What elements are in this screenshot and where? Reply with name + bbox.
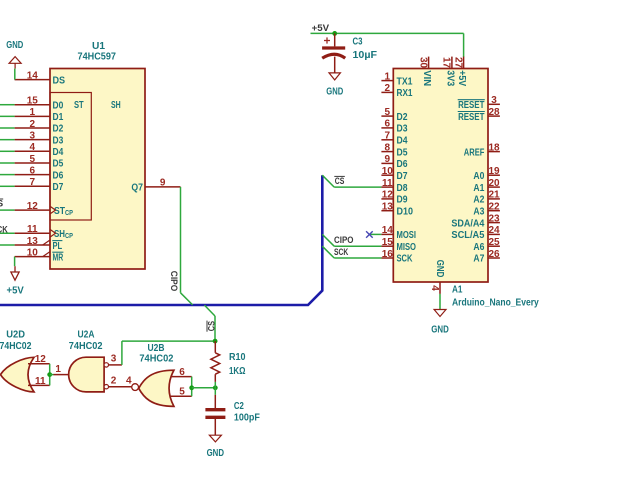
U2B pin 5 xyxy=(171,395,192,397)
svg-text:DS: DS xyxy=(53,75,66,86)
svg-text:+5V: +5V xyxy=(7,286,25,297)
wire node to C2 xyxy=(214,388,216,395)
wire rail down to Arduino +5V pin xyxy=(463,33,465,57)
svg-text:28: 28 xyxy=(488,107,500,118)
svg-text:14: 14 xyxy=(27,70,39,81)
svg-text:12: 12 xyxy=(382,190,394,201)
U1 pin 12 clock symbol xyxy=(50,206,56,214)
A1 pin 26 A7 xyxy=(488,257,500,259)
svg-text:74HC02: 74HC02 xyxy=(0,341,32,352)
U2A pin 2 to U2B pin 4 xyxy=(109,386,132,388)
svg-text:9: 9 xyxy=(385,154,391,165)
bus wire (blue) xyxy=(0,175,322,305)
svg-text:A2: A2 xyxy=(473,195,484,206)
svg-text:D3: D3 xyxy=(53,135,64,146)
svg-text:74HC02: 74HC02 xyxy=(69,341,103,352)
A1 pin 25 A6 xyxy=(488,245,500,247)
gate U2D 74HC02 (mirrored NOR, cut off at left) xyxy=(1,357,35,392)
svg-text:ST: ST xyxy=(74,100,84,111)
svg-text:23: 23 xyxy=(488,213,500,224)
svg-text:AREF: AREF xyxy=(464,147,485,158)
svg-text:14: 14 xyxy=(382,225,394,236)
svg-text:C3: C3 xyxy=(353,37,363,48)
svg-text:15: 15 xyxy=(27,96,39,107)
svg-text:10: 10 xyxy=(382,166,394,177)
svg-text:1: 1 xyxy=(385,71,391,82)
power symbol GND (top-left, flipped) xyxy=(9,57,21,64)
wire CIPO from Q7 down to bus xyxy=(180,187,182,293)
svg-text:CK: CK xyxy=(0,225,8,236)
A1 pin 23 SDA/A4 xyxy=(488,222,500,224)
svg-text:+5V: +5V xyxy=(312,23,330,34)
wire U2A output to U2D inputs, pin 1 xyxy=(50,374,54,376)
A1 pin 6 D3 xyxy=(381,127,393,129)
net label CS (vertical, with overline) xyxy=(207,321,218,332)
U1 pin 13 PL (active low) xyxy=(15,244,50,246)
svg-text:D0: D0 xyxy=(53,100,64,111)
U2A input bubble pin 3 xyxy=(104,363,108,367)
svg-text:SHCP: SHCP xyxy=(54,229,73,240)
svg-text:D8: D8 xyxy=(397,183,408,194)
svg-text:CIPO: CIPO xyxy=(334,235,354,246)
resistor R10 xyxy=(214,341,216,353)
U2D pin 11 xyxy=(28,384,50,386)
U2B pin 6 xyxy=(171,376,192,378)
power symbol +5V (pointing down) xyxy=(14,266,16,272)
U1 pin 15 D0 xyxy=(15,104,50,106)
U1 pin 2 D2 xyxy=(15,127,50,129)
U1 pin 5 D5 xyxy=(15,162,50,164)
svg-text:2: 2 xyxy=(385,83,391,94)
svg-text:4: 4 xyxy=(429,285,440,291)
U1 pin 13 input-low wedge xyxy=(43,240,50,245)
U1 pin 1 D1 xyxy=(15,115,50,117)
svg-text:CIPO: CIPO xyxy=(168,271,179,292)
A1 pin 19 A0 xyxy=(488,174,500,176)
wire CS from bus to Arduino D8 xyxy=(322,175,334,187)
svg-text:74HC02: 74HC02 xyxy=(139,354,174,365)
junction at R10 top / CS node xyxy=(213,339,218,344)
svg-text:D2: D2 xyxy=(53,124,64,135)
A1 pin 24 SCL/A5 xyxy=(488,233,500,235)
svg-text:4: 4 xyxy=(30,142,36,153)
U1 pin 10 input-low wedge xyxy=(43,252,50,257)
svg-text:D5: D5 xyxy=(397,147,408,158)
A1 pin 5 D2 xyxy=(381,115,393,117)
svg-text:VIN: VIN xyxy=(421,70,432,86)
U1 pin 4 D4 xyxy=(15,150,50,152)
svg-text:24: 24 xyxy=(488,225,500,236)
svg-text:R10: R10 xyxy=(229,352,246,363)
no-connect cross at MOSI xyxy=(366,231,373,238)
svg-text:MOSI: MOSI xyxy=(397,230,417,241)
svg-text:1: 1 xyxy=(55,364,61,375)
U1 pin 6 D6 xyxy=(15,174,50,176)
junction at R10 bottom / C2 top xyxy=(213,385,218,390)
svg-text:11: 11 xyxy=(27,224,38,235)
svg-text:3V3: 3V3 xyxy=(444,70,455,86)
svg-text:8: 8 xyxy=(385,142,391,153)
wire U2A pin3 up and right to CS node xyxy=(121,341,123,365)
svg-text:STCP: STCP xyxy=(54,206,73,217)
svg-text:10µF: 10µF xyxy=(353,50,378,61)
svg-text:RESET: RESET xyxy=(458,100,485,111)
A1 pin 9 D6 xyxy=(381,162,393,164)
svg-text:7: 7 xyxy=(30,177,36,188)
wire GND to U1 DS xyxy=(14,69,16,80)
net label CIPO (vertical) xyxy=(168,271,179,292)
A1 pin 12 D9 xyxy=(381,198,393,200)
A1 pin 4 GND (bottom) xyxy=(439,282,441,294)
capacitor C2 xyxy=(214,395,216,408)
svg-text:30: 30 xyxy=(417,57,428,69)
A1 pin 10 D7 xyxy=(381,174,393,176)
svg-text:U2A: U2A xyxy=(78,330,95,341)
A1 pin 20 A1 xyxy=(488,186,500,188)
svg-text:4: 4 xyxy=(126,375,132,386)
svg-text:MR: MR xyxy=(53,253,64,264)
power symbol GND below C2 xyxy=(209,435,221,442)
A1 pin 2 RX1 xyxy=(381,91,393,93)
svg-text:11: 11 xyxy=(382,178,393,189)
svg-text:9: 9 xyxy=(160,178,166,189)
U1 pin 12 STcp xyxy=(15,209,50,211)
capacitor C3 (polarized) xyxy=(334,33,336,46)
A1 pin 1 TX1 xyxy=(381,80,393,82)
svg-text:5: 5 xyxy=(179,387,185,398)
svg-text:SCK: SCK xyxy=(397,254,413,265)
svg-text:D4: D4 xyxy=(397,136,408,147)
svg-text:5: 5 xyxy=(385,107,391,118)
svg-text:D4: D4 xyxy=(53,147,64,158)
svg-text:RX1: RX1 xyxy=(397,88,413,99)
svg-text:A7: A7 xyxy=(473,254,484,265)
svg-text:74HC597: 74HC597 xyxy=(78,52,117,63)
svg-text:Arduino_Nano_Every: Arduino_Nano_Every xyxy=(452,298,539,309)
svg-text:SCK: SCK xyxy=(334,247,348,258)
svg-text:100pF: 100pF xyxy=(234,413,260,424)
svg-text:GND: GND xyxy=(6,40,23,51)
IC U1 74HC597 body xyxy=(50,69,145,270)
svg-text:16: 16 xyxy=(382,249,394,260)
U1 pin 3 D3 xyxy=(15,139,50,141)
A1 pin 15 MISO xyxy=(381,245,393,247)
wire +5V rail xyxy=(311,32,464,34)
svg-text:15: 15 xyxy=(382,237,394,248)
svg-text:19: 19 xyxy=(488,166,500,177)
svg-text:TX1: TX1 xyxy=(397,76,413,87)
svg-text:22: 22 xyxy=(488,202,500,213)
svg-text:3: 3 xyxy=(111,353,117,364)
gate U2A 74HC02 (mirrored DeMorgan NOR) xyxy=(69,357,104,392)
svg-text:6: 6 xyxy=(385,119,391,130)
A1 pin 27 +5V (top) xyxy=(463,57,465,69)
svg-text:SCL/A5: SCL/A5 xyxy=(451,230,484,241)
A1 pin 3 RESET xyxy=(488,103,500,105)
svg-text:10: 10 xyxy=(27,247,39,258)
svg-text:C2: C2 xyxy=(234,401,244,412)
svg-text:D6: D6 xyxy=(397,159,408,170)
wire CIPO from bus to Arduino MISO xyxy=(322,234,334,246)
svg-text:3: 3 xyxy=(491,95,497,106)
IC A1 Arduino Nano Every body xyxy=(393,69,488,283)
svg-text:Q7: Q7 xyxy=(131,183,143,194)
wire pin4 to GND symbol xyxy=(439,294,441,310)
U1 pin 7 D7 xyxy=(15,185,50,187)
U2A input bubble pin 2 xyxy=(104,385,108,389)
svg-text:GND: GND xyxy=(207,448,224,459)
svg-text:D9: D9 xyxy=(397,195,408,206)
svg-text:18: 18 xyxy=(488,142,500,153)
junction at C3 xyxy=(332,31,337,36)
svg-text:27: 27 xyxy=(452,57,463,69)
U2D pin 12 xyxy=(28,363,50,365)
wire MR to +5V symbol xyxy=(14,257,16,267)
wire U2B inputs to R10/C2 node xyxy=(192,387,216,389)
C3 plus sign xyxy=(324,40,330,42)
svg-text:D3: D3 xyxy=(397,124,408,135)
svg-text:SDA/A4: SDA/A4 xyxy=(451,218,484,229)
A1 pin 13 D10 xyxy=(381,210,393,212)
svg-text:7: 7 xyxy=(385,131,391,142)
svg-text:A6: A6 xyxy=(473,242,484,253)
svg-text:D1: D1 xyxy=(53,112,64,123)
svg-text:A1: A1 xyxy=(452,285,463,296)
svg-text:U2D: U2D xyxy=(6,330,25,341)
svg-text:D7: D7 xyxy=(53,182,64,193)
svg-text:+5V: +5V xyxy=(456,70,467,86)
A1 pin 17 3V3 (top) xyxy=(451,57,453,69)
U1 pin 9 Q7 output xyxy=(145,186,181,188)
svg-text:20: 20 xyxy=(488,178,500,189)
svg-text:D5: D5 xyxy=(53,159,64,170)
U1 pin 10 MR (active low) xyxy=(15,256,50,258)
svg-text:5: 5 xyxy=(30,154,36,165)
svg-text:CS: CS xyxy=(335,176,345,187)
power symbol GND below A1 xyxy=(434,310,446,317)
svg-text:2: 2 xyxy=(111,375,117,386)
svg-text:25: 25 xyxy=(488,237,500,248)
svg-text:26: 26 xyxy=(488,249,500,260)
svg-text:D6: D6 xyxy=(53,170,64,181)
svg-text:U2B: U2B xyxy=(148,343,165,354)
svg-text:CS: CS xyxy=(207,321,218,332)
svg-text:GND: GND xyxy=(431,324,449,335)
wire tying U2B inputs xyxy=(191,377,193,397)
svg-text:D2: D2 xyxy=(397,112,408,123)
svg-text:MISO: MISO xyxy=(397,242,417,253)
A1 pin 28 RESET xyxy=(488,115,500,117)
U1 pin 11 clock symbol xyxy=(50,229,56,237)
U2B output bubble pin 4 xyxy=(132,384,139,391)
A1 pin 11 D8 xyxy=(381,186,393,188)
svg-text:6: 6 xyxy=(30,165,36,176)
A1 pin 16 SCK xyxy=(381,257,393,259)
svg-text:A1: A1 xyxy=(473,183,484,194)
svg-text:SH: SH xyxy=(111,100,121,111)
svg-text:17: 17 xyxy=(441,57,452,69)
svg-text:2: 2 xyxy=(30,119,36,130)
svg-text:12: 12 xyxy=(35,354,47,365)
A1 pin 7 D4 xyxy=(381,139,393,141)
wire CS from bus down to R10 node xyxy=(204,305,215,316)
svg-text:13: 13 xyxy=(27,236,39,247)
svg-text:11: 11 xyxy=(35,376,46,387)
wire R10 to node xyxy=(214,382,216,388)
svg-text:GND: GND xyxy=(326,86,343,97)
A1 pin 8 D5 xyxy=(381,151,393,153)
svg-text:3: 3 xyxy=(30,130,36,141)
wire tying U2D inputs xyxy=(49,364,51,386)
wire stub at MOSI xyxy=(370,233,381,235)
svg-text:A3: A3 xyxy=(473,206,484,217)
svg-text:A0: A0 xyxy=(473,171,484,182)
svg-text:D7: D7 xyxy=(397,171,408,182)
svg-text:PL: PL xyxy=(53,241,63,252)
wire SCK from bus to Arduino SCK xyxy=(322,246,334,258)
svg-text:U1: U1 xyxy=(92,41,106,52)
svg-text:RESET: RESET xyxy=(458,112,485,123)
A1 pin 30 VIN (top) xyxy=(428,57,430,69)
gate U2B 74HC02 (mirrored NOR) xyxy=(139,370,174,406)
U1 inner ST section box xyxy=(50,93,91,221)
svg-text:D10: D10 xyxy=(397,206,414,217)
svg-text:21: 21 xyxy=(488,190,500,201)
svg-text:1KΩ: 1KΩ xyxy=(229,366,246,377)
wires from left edge into U1 data pins xyxy=(0,104,15,106)
A1 pin 21 A2 xyxy=(488,198,500,200)
U1 pin 11 SHcp xyxy=(15,232,50,234)
A1 pin 18 AREF xyxy=(488,151,500,153)
power symbol GND below C3 xyxy=(329,73,340,80)
svg-text:1: 1 xyxy=(30,107,36,118)
junction at U2D inputs xyxy=(47,372,52,377)
svg-text:6: 6 xyxy=(179,367,185,378)
junction at U2B inputs xyxy=(189,385,194,390)
A1 pin 22 A3 xyxy=(488,210,500,212)
svg-text:13: 13 xyxy=(382,202,394,213)
svg-text:12: 12 xyxy=(27,201,39,212)
U1 pin 14 DS xyxy=(15,79,50,81)
svg-text:GND: GND xyxy=(434,260,445,278)
U2A pin 3 xyxy=(109,364,122,366)
A1 pin 14 MOSI (no connect) xyxy=(381,233,393,235)
